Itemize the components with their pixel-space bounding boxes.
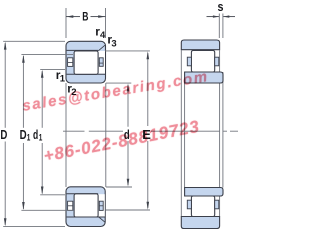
outer ring lower-left section (66, 187, 105, 227)
roller upper-right view (191, 50, 214, 72)
dimension d arrows (127, 83, 130, 186)
dimension d1 arrows (41, 70, 44, 195)
wire: left-view silhouette verticals between sections (66, 83, 106, 187)
svg-text:4: 4 (100, 30, 106, 41)
dimension D arrows (4, 42, 7, 227)
svg-text:1: 1 (60, 74, 66, 85)
dimension d1 line (40, 69, 65, 194)
cage pocket lower-left left (68, 201, 73, 210)
roller lower-right view (191, 196, 214, 217)
dimension B extension lines (66, 8, 106, 38)
svg-text:s: s (218, 0, 224, 14)
cage tab lower-left right (99, 201, 103, 210)
watermark sales@tobearing.com (21, 68, 210, 115)
dimension s arrows (207, 15, 236, 17)
svg-text:B: B (82, 10, 88, 24)
watermark +86-022-88819723 (42, 117, 201, 167)
dimension d line (106, 83, 132, 187)
dimension B line with arrows (66, 15, 106, 18)
outer ring band upper-right view (181, 40, 219, 50)
centerline (63, 130, 238, 132)
cage pocket upper-left left (68, 58, 73, 67)
cage tab upper-right right (215, 57, 219, 66)
cage tab upper-left right (99, 58, 103, 67)
wire: right-view face silhouette verticals between sections (181, 50, 223, 216)
inner ring band lower-right view (185, 188, 223, 197)
svg-text:D: D (0, 127, 7, 142)
inner ring band upper-right view (185, 72, 223, 83)
dimension E line (105, 51, 150, 210)
roller lower-left (74, 194, 98, 217)
dimension E arrows (147, 51, 150, 210)
outer ring band lower-right view (181, 217, 219, 229)
cage tab upper-right left (187, 57, 191, 66)
svg-text:1: 1 (27, 133, 31, 144)
svg-text:d: d (33, 127, 38, 142)
cage tab lower-right right (215, 200, 219, 209)
dimension D1 line (21, 54, 73, 210)
dimension s extension lines (219, 14, 223, 39)
roller upper-left (74, 51, 98, 74)
dimension D1 arrows (22, 55, 25, 210)
outer ring upper-left section (66, 41, 106, 83)
dimension D line (3, 41, 65, 226)
cage tab lower-right left (187, 200, 191, 209)
svg-text:D: D (20, 127, 27, 142)
svg-text:1: 1 (39, 133, 43, 144)
svg-text:3: 3 (111, 39, 116, 50)
